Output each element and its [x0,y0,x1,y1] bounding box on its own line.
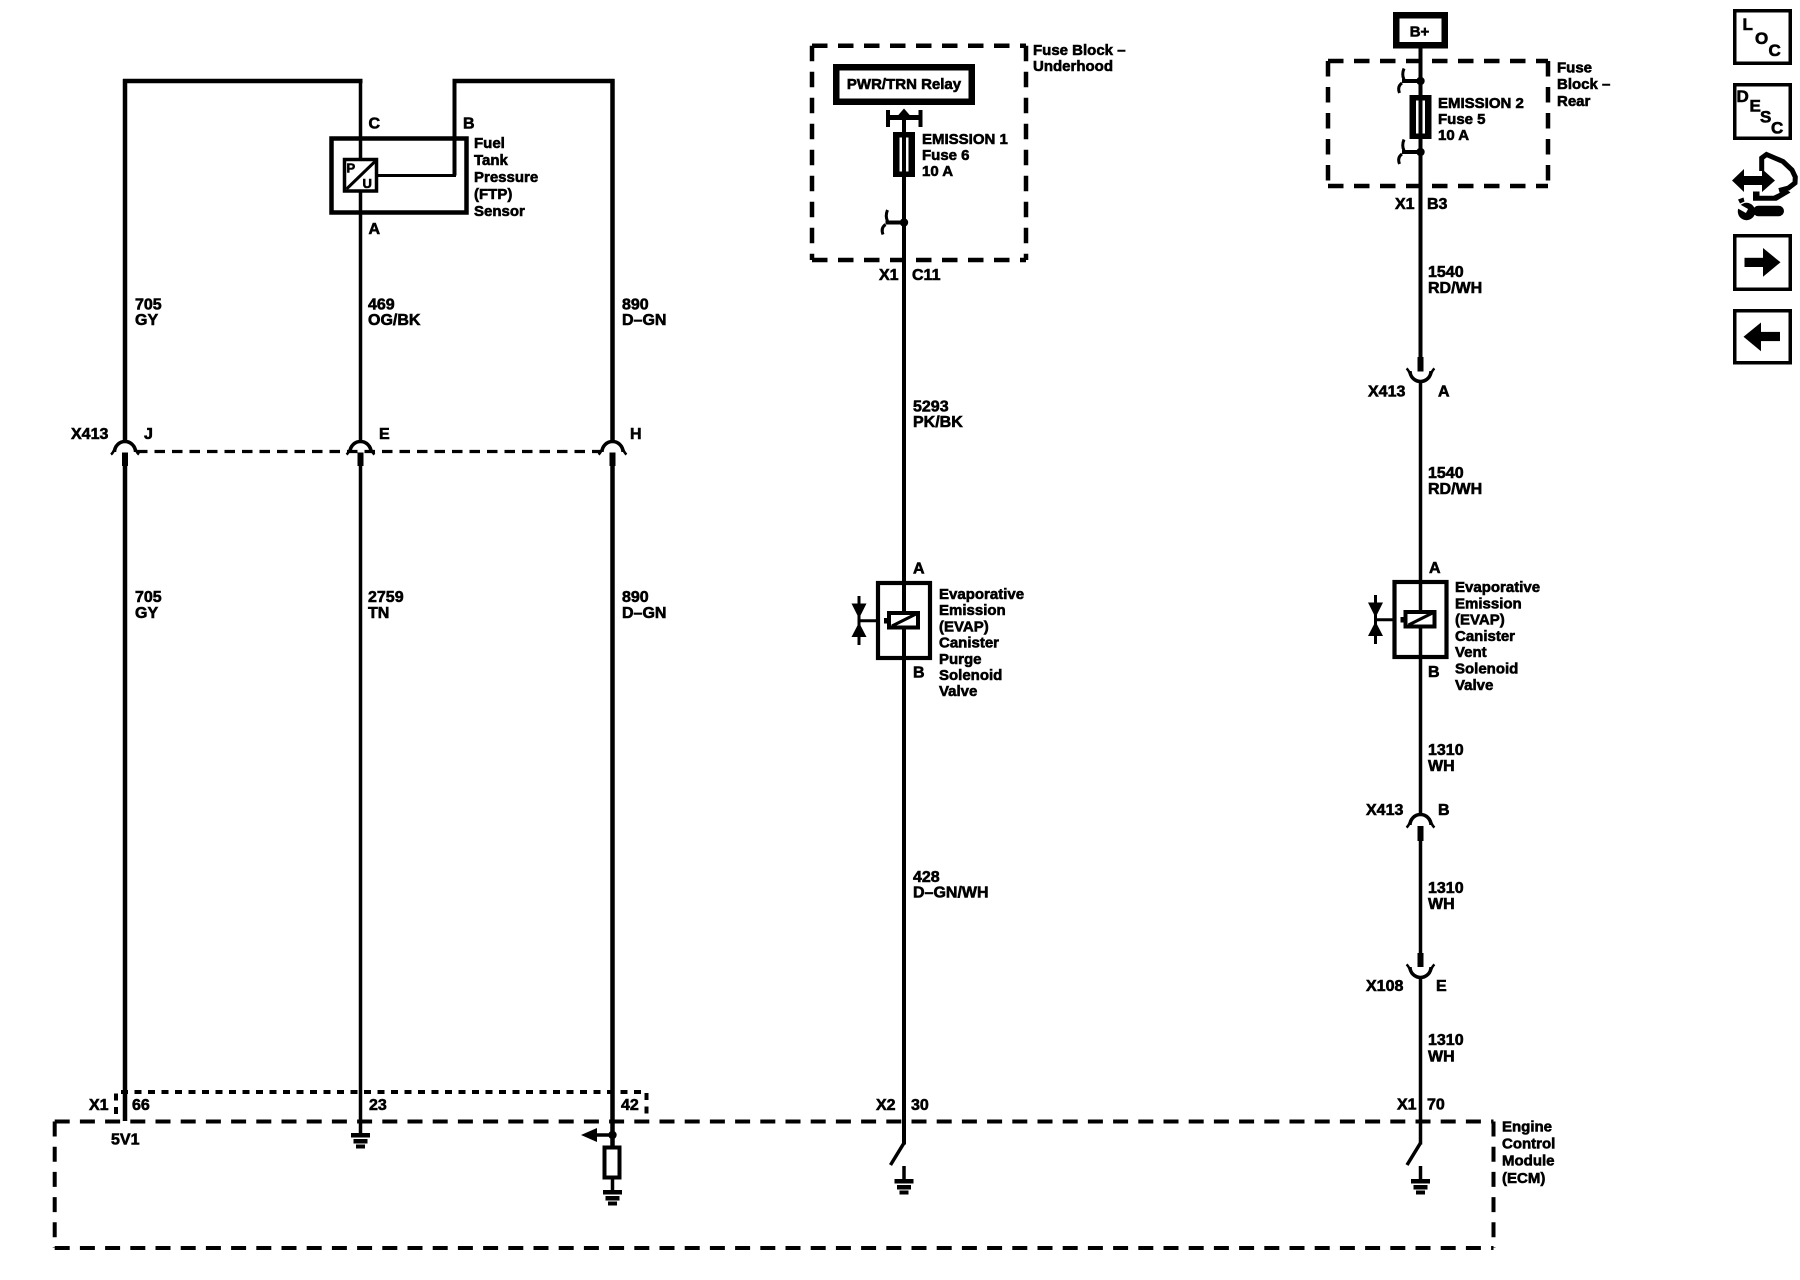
relay output terminal symbol [888,109,921,128]
svg-text:70: 70 [1427,1097,1445,1114]
svg-text:X413: X413 [1368,384,1405,401]
svg-text:2759: 2759 [368,589,404,606]
svg-text:Canister: Canister [1455,628,1515,645]
svg-text:RD/WH: RD/WH [1428,280,1482,297]
wire link P/U box to pin B [377,174,456,177]
wire B+ feed down entire right column (1540 RD/WH) [1419,49,1423,358]
connector X413 pin J (arc + pin) [111,442,139,467]
svg-text:Fuse Block –: Fuse Block – [1033,42,1126,59]
svg-text:B: B [463,116,475,133]
svg-text:66: 66 [132,1097,150,1114]
wire top horizontal left (705 GY to pin C) [123,79,363,84]
wire 1540 RD/WH lower segment [1419,382,1423,581]
svg-text:Fuse 6: Fuse 6 [922,147,970,164]
ground (ECM pin 70) [1411,1179,1430,1195]
svg-text:Solenoid: Solenoid [1455,661,1518,678]
svg-text:Fuel: Fuel [474,135,505,152]
fuse EMISSION 2 Fuse 5 [1412,97,1430,137]
signal arrow (pin 42) [581,1128,617,1142]
svg-text:A: A [913,561,925,578]
svg-text:X1: X1 [1397,1097,1417,1114]
svg-text:E: E [379,426,390,443]
svg-text:1310: 1310 [1428,742,1464,759]
forward arrow icon box [1735,236,1791,290]
wire 705 GY vertical upper [123,79,128,442]
ground (ECM pin 30) [895,1179,914,1195]
svg-text:Vent: Vent [1455,644,1487,661]
svg-text:Canister: Canister [939,635,999,652]
fuse block clip terminal (above fuse 5) [1399,69,1425,94]
svg-text:5293: 5293 [913,399,949,416]
svg-text:1540: 1540 [1428,264,1464,281]
service/repair icon (arrow + wrench) [1732,155,1795,221]
svg-text:L: L [1743,15,1753,34]
fuse block clip terminal (below fuse 5) [1399,140,1425,165]
svg-text:S: S [1760,108,1771,127]
svg-text:Valve: Valve [939,683,977,700]
svg-text:Sensor: Sensor [474,203,525,220]
svg-text:A: A [1438,384,1450,401]
fuse EMISSION 1 Fuse 6 [895,134,913,175]
wire 2759 TN vertical lower [359,466,363,1133]
svg-text:10 A: 10 A [1438,127,1469,144]
svg-text:C: C [1769,41,1781,60]
DESC icon box [1735,85,1791,139]
svg-text:Fuse 5: Fuse 5 [1438,111,1486,128]
svg-text:P: P [347,161,356,176]
svg-text:Evaporative: Evaporative [1455,579,1540,596]
svg-text:X413: X413 [71,426,108,443]
ground (ECM pin 42) [603,1190,622,1206]
ECM connector X1 dotted outline [116,1092,647,1114]
svg-text:Solenoid: Solenoid [939,667,1002,684]
FTP sensor P/U element [345,160,377,192]
svg-text:D–GN: D–GN [622,605,666,622]
svg-text:Module: Module [1502,1153,1555,1170]
svg-text:PWR/TRN Relay: PWR/TRN Relay [847,76,962,93]
wire 890 D-GN vertical lower [610,466,615,1147]
connector X413 pin E (arc + pin) [347,442,375,467]
svg-text:GY: GY [135,312,158,329]
wire resistor to ground [611,1178,615,1192]
PWR/TRN Relay box [836,67,972,102]
svg-text:WH: WH [1428,896,1455,913]
svg-text:Tank: Tank [474,152,509,169]
svg-text:Fuse: Fuse [1557,60,1592,77]
ECM low-side driver (pin 70) [1407,1143,1421,1165]
svg-text:C: C [1771,119,1783,138]
svg-text:42: 42 [621,1097,639,1114]
svg-text:Underhood: Underhood [1033,58,1113,75]
svg-text:D–GN/WH: D–GN/WH [913,885,989,902]
connector X413 pin H (arc + pin) [599,442,627,467]
svg-text:30: 30 [911,1097,929,1114]
Fuel Tank Pressure (FTP) Sensor box [332,139,467,213]
resistor (ECM internal, pin 42) [605,1148,620,1178]
svg-text:TN: TN [368,605,389,622]
svg-text:(ECM): (ECM) [1502,1170,1545,1187]
ECM low-side driver (pin 30) [891,1143,905,1165]
EVAP canister purge solenoid valve [852,583,931,658]
wire top horizontal right (pin B to 890 D-GN) [453,79,615,84]
svg-text:C: C [369,116,381,133]
svg-text:RD/WH: RD/WH [1428,481,1482,498]
svg-text:1310: 1310 [1428,1032,1464,1049]
ECM dashed box [55,1122,1494,1249]
svg-text:469: 469 [368,297,395,314]
wire 890 D-GN vertical upper [610,79,615,442]
svg-text:WH: WH [1428,758,1455,775]
svg-text:X108: X108 [1366,978,1403,995]
connector X413 pin B (arc + pin) [1407,815,1435,842]
back arrow icon box [1735,311,1791,363]
svg-text:X1: X1 [1395,196,1415,213]
svg-text:OG/BK: OG/BK [368,312,421,329]
wire 705 GY vertical lower [123,466,128,1121]
svg-text:X1: X1 [89,1097,109,1114]
svg-text:X413: X413 [1366,802,1403,819]
svg-text:B+: B+ [1410,24,1430,41]
svg-text:23: 23 [369,1097,387,1114]
svg-text:Emission: Emission [1455,595,1522,612]
svg-text:B: B [1428,664,1440,681]
svg-text:C11: C11 [912,267,941,284]
svg-text:O: O [1755,29,1768,48]
wire relay to EVAP purge solenoid (5293 PK/BK column) [902,119,906,1145]
svg-text:B3: B3 [1427,196,1448,213]
svg-text:Rear: Rear [1557,93,1591,110]
svg-text:1310: 1310 [1428,880,1464,897]
svg-text:428: 428 [913,869,940,886]
svg-text:705: 705 [135,297,162,314]
svg-text:A: A [369,221,381,238]
ground (ECM pin 23) [351,1133,370,1149]
svg-text:A: A [1429,560,1441,577]
svg-text:890: 890 [622,589,649,606]
svg-text:PK/BK: PK/BK [913,414,963,431]
svg-text:Valve: Valve [1455,677,1493,694]
svg-text:X1: X1 [879,267,899,284]
wire 1310 WH middle segment [1419,841,1423,953]
connector X108 pin E (pin + arc) [1407,953,1435,978]
svg-text:Emission: Emission [939,602,1006,619]
svg-text:EMISSION 2: EMISSION 2 [1438,95,1524,112]
svg-text:5V1: 5V1 [111,1132,140,1149]
svg-text:U: U [363,176,372,191]
wire 1310 WH bottom segment [1419,978,1423,1145]
X413 row dashed harness line [137,450,601,453]
svg-text:Block –: Block – [1557,76,1610,93]
svg-text:Evaporative: Evaporative [939,586,1024,603]
wire 469 OG/BK vertical (pin C through sensor) [359,81,363,442]
svg-text:H: H [630,426,642,443]
svg-text:(EVAP): (EVAP) [1455,612,1505,629]
svg-text:10 A: 10 A [922,163,953,180]
Fuse Block - Rear dashed box [1328,61,1548,186]
svg-text:D: D [1737,87,1749,106]
svg-text:B: B [913,665,925,682]
EVAP canister vent solenoid valve [1368,582,1447,657]
connector X413 pin A (pin + arc) [1407,357,1435,382]
svg-text:Engine: Engine [1502,1119,1552,1136]
svg-text:Control: Control [1502,1136,1555,1153]
wire pin B vertical into sensor [453,81,457,176]
svg-text:D–GN: D–GN [622,312,666,329]
svg-text:J: J [144,426,153,443]
svg-text:E: E [1436,978,1447,995]
svg-text:(EVAP): (EVAP) [939,618,989,635]
fuse block clip terminal (below fuse 6) [882,210,908,235]
wire through vent valve [1419,580,1423,612]
LOC icon box [1735,11,1791,64]
svg-text:705: 705 [135,589,162,606]
svg-text:X2: X2 [876,1097,896,1114]
svg-text:Purge: Purge [939,651,982,668]
svg-text:(FTP): (FTP) [474,186,512,203]
svg-text:Pressure: Pressure [474,169,538,186]
Fuse Block - Underhood dashed box [812,46,1026,260]
svg-text:1540: 1540 [1428,465,1464,482]
svg-text:B: B [1438,802,1450,819]
B+ battery feed box [1396,15,1445,45]
svg-text:GY: GY [135,605,158,622]
svg-text:890: 890 [622,297,649,314]
svg-text:WH: WH [1428,1049,1455,1066]
svg-text:EMISSION 1: EMISSION 1 [922,131,1008,148]
